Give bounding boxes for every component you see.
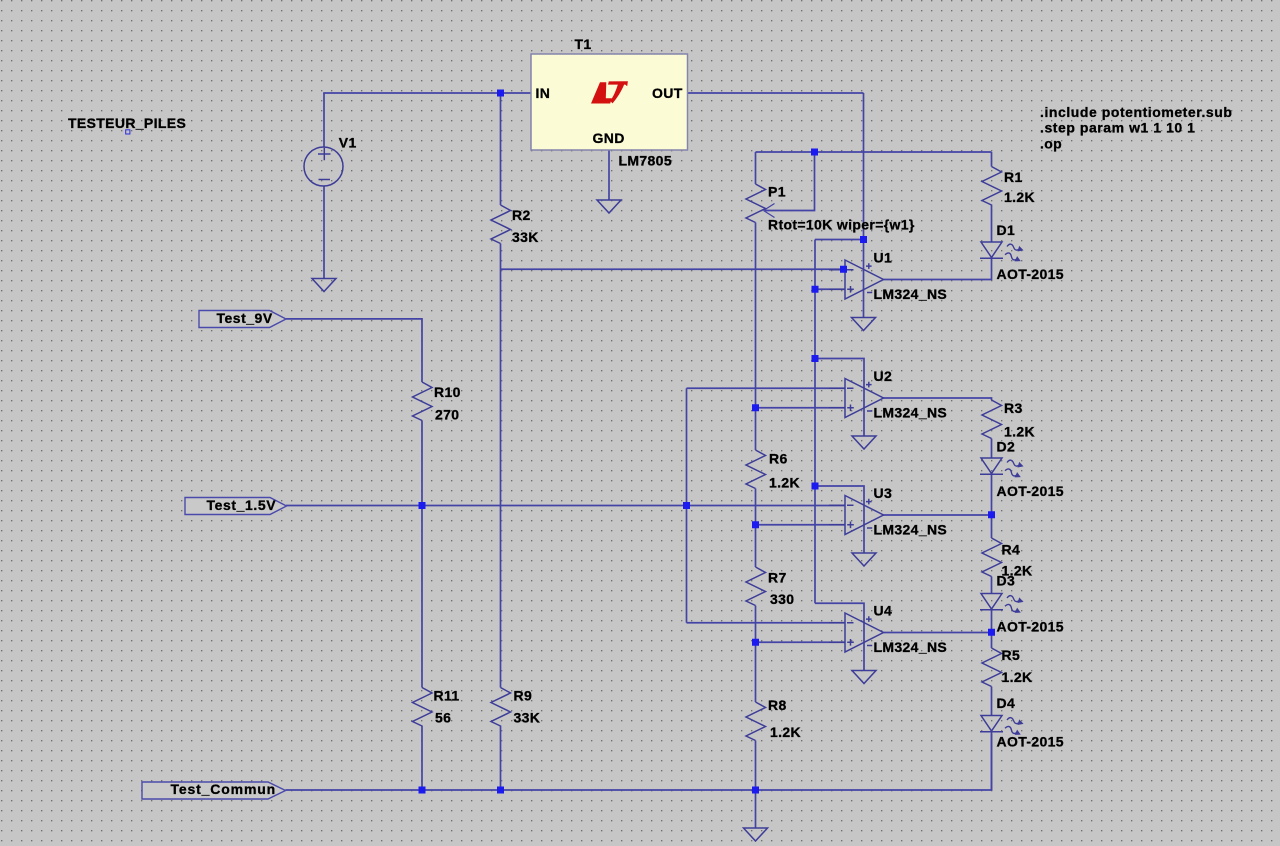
- svg-text:R4: R4: [1002, 542, 1021, 558]
- svg-text:Test_Commun: Test_Commun: [171, 781, 277, 797]
- svg-text:56: 56: [435, 709, 451, 725]
- svg-text:1.2K: 1.2K: [1002, 669, 1033, 685]
- svg-text:R8: R8: [768, 697, 787, 713]
- svg-text:LM324_NS: LM324_NS: [874, 522, 948, 538]
- svg-text:D1: D1: [997, 222, 1016, 238]
- svg-text:Test_1.5V: Test_1.5V: [207, 497, 277, 513]
- svg-text:R3: R3: [1004, 400, 1023, 416]
- svg-text:LM324_NS: LM324_NS: [874, 405, 948, 421]
- svg-text:LM324_NS: LM324_NS: [874, 286, 948, 302]
- svg-text:33K: 33K: [514, 709, 541, 725]
- svg-text:AOT-2015: AOT-2015: [997, 734, 1064, 750]
- svg-text:R9: R9: [514, 687, 533, 703]
- svg-text:GND: GND: [593, 130, 625, 146]
- svg-text:AOT-2015: AOT-2015: [997, 619, 1064, 635]
- svg-text:R1: R1: [1004, 169, 1023, 185]
- svg-text:R11: R11: [434, 687, 460, 703]
- svg-text:U4: U4: [874, 603, 893, 619]
- svg-text:R2: R2: [512, 207, 531, 223]
- svg-text:D3: D3: [997, 573, 1016, 589]
- svg-text:Test_9V: Test_9V: [217, 310, 273, 326]
- svg-text:AOT-2015: AOT-2015: [997, 266, 1064, 282]
- svg-text:D4: D4: [997, 695, 1016, 711]
- svg-text:P1: P1: [768, 184, 786, 200]
- svg-text:33K: 33K: [512, 229, 539, 245]
- svg-text:1.2K: 1.2K: [1004, 424, 1035, 440]
- svg-text:AOT-2015: AOT-2015: [997, 483, 1064, 499]
- svg-text:R10: R10: [434, 384, 461, 400]
- svg-text:IN: IN: [536, 85, 551, 101]
- svg-text:TESTEUR_PILES: TESTEUR_PILES: [68, 115, 186, 131]
- svg-text:U2: U2: [874, 368, 893, 384]
- svg-text:T1: T1: [575, 36, 592, 52]
- svg-text:R7: R7: [768, 570, 787, 586]
- svg-text:.step param w1 1 10 1: .step param w1 1 10 1: [1040, 120, 1196, 136]
- svg-text:U1: U1: [874, 250, 893, 266]
- svg-text:LM7805: LM7805: [619, 153, 672, 169]
- svg-text:.op: .op: [1040, 136, 1062, 152]
- svg-text:330: 330: [770, 591, 794, 607]
- svg-text:1.2K: 1.2K: [1004, 189, 1035, 205]
- svg-text:OUT: OUT: [652, 85, 683, 101]
- svg-text:1.2K: 1.2K: [769, 475, 800, 491]
- svg-text:U3: U3: [874, 485, 893, 501]
- svg-text:R5: R5: [1002, 647, 1021, 663]
- svg-text:1.2K: 1.2K: [770, 724, 801, 740]
- svg-text:V1: V1: [339, 134, 357, 150]
- svg-text:270: 270: [435, 406, 459, 422]
- svg-text:LM324_NS: LM324_NS: [874, 639, 948, 655]
- svg-text:R6: R6: [769, 451, 788, 467]
- svg-text:Rtot=10K wiper={w1}: Rtot=10K wiper={w1}: [768, 217, 915, 233]
- svg-text:.include potentiometer.sub: .include potentiometer.sub: [1040, 104, 1232, 120]
- svg-text:D2: D2: [997, 439, 1016, 455]
